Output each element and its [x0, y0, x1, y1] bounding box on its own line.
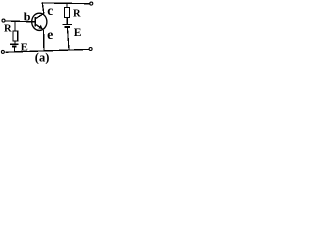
battery E (left): long positive plate: [10, 43, 19, 45]
terminal: right bottom output (open circle): [89, 48, 92, 51]
wire: battery (right) down to bottom rail: [68, 28, 70, 50]
terminal: right top output (open circle): [90, 2, 93, 5]
wire: battery (left) down to bottom rail: [13, 48, 15, 53]
terminal: left bottom input (open circle): [1, 50, 4, 53]
svg-text:E: E: [21, 42, 28, 53]
transistor Q1 (NPN, circle envelope): [32, 13, 47, 30]
svg-text:b: b: [24, 9, 31, 23]
resistor R (right, collector load, box symbol): [64, 8, 69, 18]
wire: resistor to battery (right): [66, 18, 68, 25]
terminal: left top input (open circle): [2, 19, 5, 22]
svg-text:R: R: [4, 24, 12, 35]
transistor Q1: emitter arrowhead: [38, 25, 42, 29]
wire: bottom rail from left input terminal to right output terminal: [6, 49, 90, 52]
battery E (left): short negative plate: [12, 46, 17, 48]
svg-text:E: E: [74, 27, 82, 39]
svg-text:c: c: [47, 3, 53, 18]
wire: lead from base wire down to resistor R (left): [14, 22, 16, 31]
svg-text:e: e: [47, 28, 53, 43]
transistor Q1: emitter stroke: [35, 24, 43, 30]
resistor R (left, base resistor, box symbol): [13, 31, 18, 41]
transistor Q1: collector stroke: [35, 14, 43, 19]
battery E (right): short negative plate: [64, 26, 70, 28]
transistor Q1: base bar: [34, 17, 36, 27]
battery E (right): long positive plate: [62, 24, 72, 26]
wire: emitter lead from transistor down to bottom rail: [43, 30, 45, 51]
wire: lead from top rail down to resistor R (right): [66, 3, 68, 8]
svg-text:R: R: [73, 9, 81, 20]
svg-text:(a): (a): [35, 51, 50, 64]
wire: top rail from collector corner to right output terminal: [42, 2, 90, 5]
wire: resistor to battery (left): [14, 41, 16, 44]
wire: collector lead from top rail down to transistor: [42, 2, 44, 14]
wire: base wire from left terminal to transistor base: [5, 21, 35, 22]
